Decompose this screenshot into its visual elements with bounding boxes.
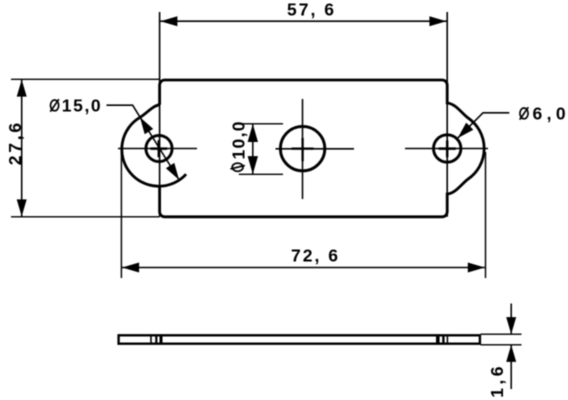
- dimension 1,6 line lower: [510, 345, 512, 389]
- dimension 1,6 top arrow: [506, 317, 516, 334]
- diameter 6 label: [520, 103, 568, 123]
- diameter 15 dimension line through left hole: [133, 105, 180, 180]
- svg-text:72, 6: 72, 6: [291, 246, 340, 266]
- diameter 15 label: [50, 95, 102, 115]
- dimension 27,6 bottom arrow: [17, 199, 27, 216]
- svg-text:57, 6: 57, 6: [287, 0, 336, 20]
- dimension 72,6 left arrow: [122, 263, 139, 273]
- right vertical line (edge + centerline + extension): [446, 12, 448, 217]
- center hole circle: [280, 126, 324, 170]
- dimension 1,6 line upper: [510, 304, 512, 335]
- left ear arc: [122, 105, 186, 186]
- diameter 10 top arrow: [248, 124, 258, 142]
- dimension 1,6 extension lines: [481, 334, 522, 345]
- left hole horizontal centerline: [118, 148, 197, 150]
- dimension 57,6 right arrow: [429, 16, 446, 26]
- svg-text:10,0: 10,0: [228, 120, 248, 159]
- diameter 15 upper arrow: [140, 117, 153, 134]
- dimension 57,6 label: [287, 0, 336, 20]
- left vertical line (edge + centerline + extension): [159, 12, 161, 217]
- center hole center mark: [292, 138, 314, 161]
- dimension 27,6 top arrow: [17, 80, 27, 97]
- dimension 72,6 line: [122, 267, 485, 269]
- diameter 10 bottom arrow: [248, 156, 258, 174]
- left hole center mark: [151, 140, 168, 157]
- side view plate body: [119, 335, 480, 343]
- dimension 57,6 left arrow: [160, 16, 177, 26]
- dimension 27,6 line: [21, 80, 23, 217]
- right hole horizontal centerline: [405, 148, 488, 150]
- svg-text:15,0: 15,0: [62, 95, 102, 115]
- center hole vertical centerline: [302, 99, 304, 199]
- dimension 27,6 extension lines: [11, 79, 160, 217]
- diameter 10 label: [228, 120, 248, 171]
- right hole circle: [434, 135, 461, 162]
- svg-text:27,6: 27,6: [5, 120, 25, 165]
- diameter 10 extension lines: [239, 124, 283, 175]
- dimension 57,6 line: [160, 20, 446, 22]
- right hole center mark: [439, 140, 456, 157]
- side view bend marks left: [151, 335, 161, 345]
- diameter 6 leader: [458, 113, 510, 138]
- side view bend marks right: [438, 335, 448, 345]
- svg-text:1,6: 1,6: [487, 363, 507, 398]
- dimension 1,6 bottom arrow: [506, 345, 516, 362]
- svg-text:6,0: 6,0: [533, 103, 568, 123]
- dimension 72,6 right arrow: [468, 263, 485, 273]
- dimension 72,6 extension lines: [121, 151, 485, 278]
- diameter 15 lower arrow: [166, 163, 179, 180]
- diameter 6 arrow: [458, 123, 474, 139]
- dimension 1,6 label: [487, 363, 507, 398]
- dimension 72,6 label: [291, 246, 340, 266]
- center hole horizontal centerline: [276, 148, 355, 150]
- left hole circle: [146, 135, 172, 161]
- diameter 15 leader horizontal: [107, 104, 134, 106]
- dimension 27,6 label: [5, 120, 25, 165]
- plate outline top view: [160, 80, 485, 217]
- diameter 10 dimension line: [252, 124, 254, 175]
